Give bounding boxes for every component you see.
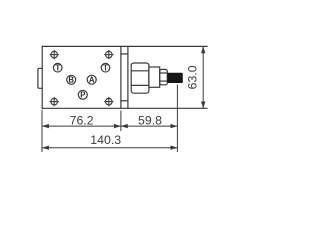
svg-text:T: T: [103, 63, 108, 72]
svg-text:63.0: 63.0: [186, 65, 200, 89]
svg-text:P: P: [80, 91, 85, 100]
svg-text:A: A: [89, 76, 95, 85]
svg-text:140.3: 140.3: [90, 133, 121, 147]
svg-text:T: T: [55, 63, 60, 72]
svg-text:76.2: 76.2: [70, 113, 94, 127]
svg-text:B: B: [68, 76, 74, 85]
svg-text:59.8: 59.8: [138, 113, 162, 127]
